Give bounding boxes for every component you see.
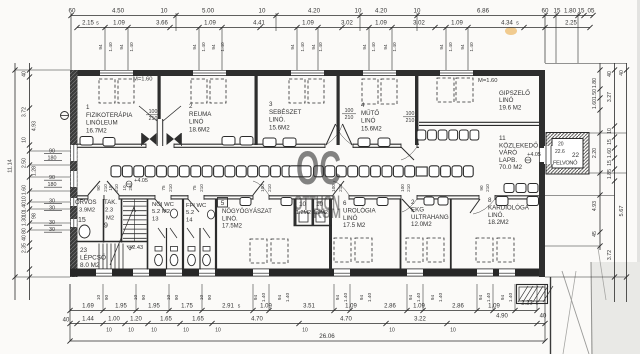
svg-text:1.40: 1.40 (220, 42, 226, 52)
paper edge fold region bottom right (591, 262, 640, 354)
svg-text:90: 90 (207, 295, 213, 301)
svg-text:05: 05 (588, 8, 595, 15)
wall ffi|nogyogy (215, 199, 217, 270)
furniture room4 dashed (362, 79, 378, 104)
svg-text:10: 10 (161, 8, 168, 15)
svg-text:94: 94 (192, 44, 198, 50)
svg-text:1.80: 1.80 (564, 8, 577, 15)
svg-text:1.40: 1.40 (22, 202, 28, 212)
fixtures rooms 10 (299, 212, 308, 222)
svg-text:M=1.60: M=1.60 (133, 77, 153, 83)
svg-text:15: 15 (554, 8, 561, 15)
svg-text:12.0M2: 12.0M2 (411, 221, 432, 228)
svg-text:1.09: 1.09 (345, 304, 357, 310)
svg-text:94: 94 (362, 44, 368, 50)
wall ekg|kardiologia (450, 199, 452, 270)
door nogyogyaszat into corridor (253, 181, 264, 195)
svg-text:3.9M2: 3.9M2 (79, 208, 95, 214)
svg-text:1.75: 1.75 (181, 304, 193, 310)
svg-text:10: 10 (96, 295, 102, 301)
svg-text:15.6M2: 15.6M2 (361, 125, 382, 132)
bottom wall (70, 269, 545, 277)
right connector lines (545, 63, 627, 65)
svg-text:1.40: 1.40 (108, 42, 114, 52)
svg-text:10: 10 (215, 328, 221, 334)
svg-text:94: 94 (335, 295, 341, 301)
svg-text:210: 210 (114, 184, 119, 192)
svg-text:94: 94 (277, 295, 283, 301)
door ekg (402, 199, 414, 212)
corner extension lines top (70, 13, 72, 70)
svg-text:210: 210 (149, 116, 158, 122)
dimension row top inner (77, 27, 590, 29)
wall stairs|noiwc (147, 199, 149, 270)
radiators kardiologia (496, 197, 508, 206)
svg-text:1.40: 1.40 (448, 42, 454, 52)
left main dimension chain (29, 63, 31, 300)
svg-text:5: 5 (238, 304, 241, 309)
svg-text:GIPSZELŐ: GIPSZELŐ (499, 90, 530, 97)
stair arrow (110, 207, 134, 265)
svg-text:2.91: 2.91 (222, 304, 234, 310)
svg-text:2.50: 2.50 (22, 158, 28, 168)
svg-text:100: 100 (400, 184, 405, 192)
svg-text:20: 20 (128, 185, 133, 191)
svg-text:210: 210 (345, 115, 354, 121)
svg-text:10: 10 (302, 328, 308, 334)
elevator lobby bench row (504, 184, 514, 193)
svg-text:LINÓ: LINÓ (499, 97, 514, 104)
svg-text:90: 90 (141, 295, 147, 301)
svg-text:210: 210 (406, 184, 411, 192)
svg-text:4.93: 4.93 (592, 201, 598, 211)
svg-text:3.66: 3.66 (156, 21, 168, 27)
corridor top wall rooms 1-4 (77, 143, 419, 145)
furniture kardiologia dashed (476, 238, 493, 262)
left window axis lines (30, 150, 71, 152)
svg-text:4.34: 4.34 (501, 21, 513, 27)
svg-text:1.65: 1.65 (160, 317, 172, 323)
svg-text:1.40: 1.40 (261, 293, 267, 303)
svg-text:2.15: 2.15 (82, 21, 94, 27)
svg-text:18: 18 (108, 185, 113, 191)
svg-text:NŐGYÓGYÁSZAT: NŐGYÓGYÁSZAT (222, 208, 272, 215)
svg-text:15: 15 (78, 217, 86, 224)
svg-text:2.3: 2.3 (105, 208, 113, 214)
svg-text:FFI WC: FFI WC (186, 203, 207, 209)
svg-text:210: 210 (406, 118, 415, 124)
furniture room5 dashed (437, 78, 454, 102)
svg-text:1.40: 1.40 (300, 42, 306, 52)
paper right edge shading (637, 0, 640, 354)
svg-text:4: 4 (361, 102, 365, 109)
svg-text:26.06: 26.06 (319, 333, 335, 340)
svg-text:1.60: 1.60 (607, 148, 613, 158)
svg-text:1.30: 1.30 (22, 216, 28, 226)
svg-text:22.6: 22.6 (555, 149, 565, 155)
bottom wall windows (96, 269, 112, 275)
svg-text:90: 90 (479, 185, 484, 191)
door assembly rooms 1|2 (156, 119, 164, 146)
wall rooms 2|3 (255, 75, 258, 145)
svg-text:210: 210 (485, 184, 490, 192)
bottom extension lines row1 (69, 284, 71, 311)
svg-text:100: 100 (260, 184, 265, 192)
svg-text:1.40: 1.40 (438, 293, 444, 303)
radiators room4 (358, 138, 370, 147)
washbasins wc (170, 209, 177, 218)
svg-text:8.0 M2: 8.0 M2 (80, 262, 100, 269)
svg-text:210: 210 (267, 184, 272, 192)
svg-text:4.70: 4.70 (340, 317, 352, 323)
svg-text:10: 10 (259, 8, 266, 15)
svg-text:75: 75 (161, 185, 166, 191)
furniture room1 dashed (99, 79, 115, 103)
svg-text:LINÓ.: LINÓ. (269, 117, 285, 124)
svg-text:1.09: 1.09 (488, 304, 500, 310)
svg-text:1.09: 1.09 (451, 21, 463, 27)
svg-text:14: 14 (186, 217, 193, 223)
svg-text:4.20: 4.20 (375, 8, 388, 15)
svg-text:1.09: 1.09 (204, 21, 216, 27)
svg-text:VÁRÓ: VÁRÓ (499, 148, 517, 157)
svg-text:1.40: 1.40 (371, 42, 377, 52)
svg-text:1.40: 1.40 (486, 293, 492, 303)
wall rooms 1|2 (158, 75, 161, 145)
svg-text:ULTRAHANG: ULTRAHANG (411, 214, 449, 221)
svg-text:1.20: 1.20 (130, 317, 142, 323)
svg-text:3.51: 3.51 (303, 304, 315, 310)
right dimension line C (626, 63, 628, 302)
wc stall partitions (166, 228, 168, 270)
svg-text:LINÓ: LINÓ (189, 119, 204, 126)
svg-text:1.50: 1.50 (592, 89, 598, 99)
svg-text:10: 10 (183, 328, 189, 334)
svg-text:15.6M2: 15.6M2 (269, 124, 290, 131)
svg-text:3.72: 3.72 (22, 107, 28, 117)
svg-text:1.40: 1.40 (343, 293, 349, 303)
svg-text:2.86: 2.86 (452, 304, 464, 310)
svg-text:3.27: 3.27 (607, 92, 613, 102)
svg-text:90: 90 (174, 295, 180, 301)
svg-text:1.85: 1.85 (607, 169, 613, 179)
svg-text:8: 8 (488, 197, 492, 204)
radiators nogyogyaszat (240, 198, 251, 206)
elevator shaft walls (546, 133, 589, 175)
washbasin orvos (79, 225, 90, 238)
svg-text:LINÓ.: LINÓ. (222, 215, 238, 222)
svg-text:210: 210 (199, 184, 204, 192)
svg-text:UROLÓGIA: UROLÓGIA (343, 207, 377, 214)
svg-text:40: 40 (22, 235, 28, 241)
svg-text:2.86: 2.86 (384, 304, 396, 310)
svg-text:40: 40 (540, 314, 547, 320)
svg-text:LAPB.: LAPB. (499, 157, 517, 164)
svg-text:1.60: 1.60 (592, 99, 598, 109)
svg-text:4.41: 4.41 (253, 21, 265, 27)
svg-text:RUM: RUM (313, 205, 341, 221)
svg-text:5: 5 (516, 21, 519, 26)
svg-text:94: 94 (253, 295, 259, 301)
svg-text:1: 1 (86, 104, 90, 111)
wall noi|ffi (182, 199, 184, 270)
svg-text:15: 15 (607, 139, 613, 145)
svg-text:94: 94 (439, 44, 445, 50)
svg-text:10: 10 (128, 328, 134, 334)
svg-text:TAK.: TAK. (104, 200, 117, 206)
svg-text:1.40: 1.40 (469, 42, 475, 52)
right wall (539, 70, 545, 277)
staircase room 23 treads (98, 244, 100, 270)
svg-text:1.80: 1.80 (592, 78, 598, 88)
bottom row 3 total (70, 340, 545, 342)
svg-text:1.69: 1.69 (82, 304, 94, 310)
svg-text:3.02: 3.02 (341, 21, 353, 27)
svg-text:1.09: 1.09 (375, 21, 387, 27)
svg-text:1.40: 1.40 (508, 293, 514, 303)
svg-text:4.90: 4.90 (496, 314, 508, 320)
svg-text:45: 45 (592, 231, 598, 237)
svg-text:ORVOS: ORVOS (75, 200, 97, 206)
svg-text:94: 94 (408, 295, 414, 301)
svg-text:19.6 M2: 19.6 M2 (499, 104, 522, 111)
svg-text:90: 90 (96, 185, 101, 191)
svg-text:10: 10 (122, 185, 127, 191)
radiators room1 (80, 137, 93, 146)
svg-text:94: 94 (290, 44, 296, 50)
svg-text:40: 40 (63, 318, 70, 324)
svg-text:94: 94 (383, 44, 389, 50)
svg-text:SEBÉSZET: SEBÉSZET (269, 109, 302, 116)
left wall windows (71, 145, 77, 161)
left wall (70, 70, 78, 277)
svg-text:3.22: 3.22 (414, 317, 426, 323)
orange smudge (505, 27, 517, 35)
gipszelo radiator row (417, 130, 426, 140)
right dimension line A (599, 63, 601, 250)
svg-text:18.2M2: 18.2M2 (488, 219, 509, 226)
radiators urologia (354, 198, 365, 206)
svg-text:20: 20 (558, 142, 564, 148)
svg-text:40: 40 (22, 71, 28, 77)
gas symbol (61, 112, 69, 120)
furniture urologia dashed (334, 238, 351, 262)
rooms 10 walls hatched (294, 199, 297, 226)
svg-text:6: 6 (343, 200, 347, 207)
rooms 10 bottom wall (294, 225, 333, 227)
fold crease lines (562, 271, 589, 354)
svg-text:1.95: 1.95 (115, 304, 127, 310)
elevator door (544, 146, 553, 164)
svg-text:40: 40 (607, 71, 613, 77)
wall orvos|tak (103, 199, 105, 243)
svg-text:10: 10 (151, 328, 157, 334)
svg-text:10: 10 (389, 328, 395, 334)
staircase upper flight treads (123, 201, 147, 203)
door urologia into corridor (333, 181, 344, 195)
toilets (155, 247, 162, 252)
svg-text:LÉPCSŐ: LÉPCSŐ (80, 252, 106, 261)
right dimension line B (614, 63, 616, 302)
door gipszelo to corridor (401, 147, 414, 160)
svg-text:2: 2 (189, 103, 193, 110)
svg-text:70.0 M2: 70.0 M2 (499, 164, 523, 171)
left overall dimension line (14, 63, 16, 300)
corridor bottom wall (77, 195, 539, 197)
svg-text:94: 94 (119, 44, 125, 50)
svg-text:11: 11 (499, 135, 506, 142)
furniture ekg dashed (406, 238, 423, 262)
wall under orvos/tak (77, 241, 148, 243)
svg-text:1.40: 1.40 (318, 42, 324, 52)
svg-text:5.67: 5.67 (619, 206, 625, 217)
svg-text:5.00: 5.00 (202, 8, 215, 15)
svg-text:LINÓ.: LINÓ. (488, 212, 504, 219)
svg-text:13: 13 (152, 216, 159, 222)
door kardiologia (470, 199, 480, 213)
svg-text:22: 22 (572, 152, 580, 159)
dark vertical line right of plan bottom (550, 277, 552, 354)
stall doors (158, 228, 165, 238)
bottom row 1 (70, 310, 537, 312)
svg-text:18.6M2: 18.6M2 (189, 126, 210, 133)
svg-text:80: 80 (22, 228, 28, 234)
nogyogyaszat label (218, 198, 228, 208)
door ffi wc (188, 199, 199, 212)
svg-text:5: 5 (96, 21, 99, 26)
svg-text:94: 94 (430, 295, 436, 301)
svg-text:FIZIKOTERÁPIA: FIZIKOTERÁPIA (86, 112, 133, 119)
svg-text:LINÓ: LINÓ (361, 118, 376, 125)
svg-text:1.44: 1.44 (82, 317, 94, 323)
door noi wc (155, 199, 166, 212)
svg-text:LINÓLEUM: LINÓLEUM (86, 120, 118, 127)
svg-text:10: 10 (106, 328, 112, 334)
svg-text:2.25: 2.25 (565, 21, 577, 27)
furniture room3 dashed (289, 79, 305, 103)
svg-text:16.7M2: 16.7M2 (86, 127, 107, 134)
svg-text:1.09: 1.09 (302, 21, 314, 27)
svg-text:94: 94 (500, 295, 506, 301)
svg-text:M=1.60: M=1.60 (478, 78, 498, 84)
svg-text:94: 94 (98, 44, 104, 50)
svg-text:10: 10 (22, 137, 28, 143)
svg-text:75: 75 (192, 185, 197, 191)
svg-text:1.95: 1.95 (148, 304, 160, 310)
svg-text:1.09: 1.09 (113, 21, 125, 27)
svg-text:4.70: 4.70 (251, 317, 263, 323)
svg-text:15: 15 (607, 160, 613, 166)
svg-text:1.40: 1.40 (201, 42, 207, 52)
radiators room3 (263, 138, 276, 147)
svg-text:4.50: 4.50 (112, 8, 125, 15)
svg-text:100: 100 (149, 109, 158, 115)
radiators ekg (424, 197, 434, 205)
svg-text:94: 94 (359, 295, 365, 301)
svg-text:KÖZLEKEDŐ: KÖZLEKEDŐ (499, 140, 538, 149)
svg-text:98: 98 (32, 213, 38, 219)
svg-text:17.5M2: 17.5M2 (222, 224, 243, 230)
corridor bench row (111, 166, 121, 177)
svg-text:1.65: 1.65 (192, 317, 204, 323)
svg-text:100: 100 (345, 108, 354, 114)
radiators room2 (222, 137, 235, 146)
svg-text:100: 100 (406, 111, 415, 117)
svg-text:210: 210 (168, 184, 173, 192)
bottom row 2 (70, 323, 545, 325)
svg-text:M2: M2 (106, 216, 114, 222)
svg-text:1.40: 1.40 (392, 42, 398, 52)
svg-text:94: 94 (460, 44, 466, 50)
wall urologia|ekg (400, 199, 402, 270)
wall rooms 3|4 (337, 75, 340, 145)
svg-text:15: 15 (578, 8, 585, 15)
svg-text:1.40: 1.40 (416, 293, 422, 303)
svg-text:2.35: 2.35 (22, 243, 28, 253)
svg-text:5: 5 (221, 200, 225, 207)
svg-text:1.40: 1.40 (285, 293, 291, 303)
svg-text:1.40: 1.40 (367, 293, 373, 303)
svg-text:3: 3 (269, 101, 273, 108)
svg-text:OC: OC (296, 141, 341, 194)
svg-text:94: 94 (211, 44, 217, 50)
svg-text:9: 9 (104, 223, 108, 230)
svg-text:REUMA: REUMA (189, 111, 212, 118)
svg-text:4.93: 4.93 (32, 121, 38, 131)
svg-text:10: 10 (355, 8, 362, 15)
wall rooms 4|5 (415, 75, 418, 145)
svg-text:1.09: 1.09 (260, 304, 272, 310)
svg-text:17.5 M2: 17.5 M2 (343, 222, 366, 229)
external stair hatched box (517, 285, 548, 304)
svg-text:4.20: 4.20 (308, 8, 321, 15)
svg-text:5.2: 5.2 (186, 210, 194, 216)
svg-text:1.28: 1.28 (32, 166, 38, 176)
svg-text:2.20: 2.20 (592, 148, 598, 158)
furniture nogyogyaszat dashed (250, 239, 267, 263)
svg-text:1.40: 1.40 (129, 42, 135, 52)
door V rooms 3|4 (326, 124, 336, 145)
wall tak|stairs (121, 199, 123, 243)
svg-text:94: 94 (478, 295, 484, 301)
svg-text:KARDIOLÓGA: KARDIOLÓGA (488, 204, 530, 211)
gipszelo corridor wall (419, 121, 539, 123)
svg-text:FELVONÓ: FELVONÓ (553, 160, 578, 167)
svg-text:90: 90 (104, 295, 110, 301)
svg-text:6.86: 6.86 (477, 8, 490, 15)
svg-text:60: 60 (69, 8, 76, 15)
svg-text:1.60: 1.60 (22, 185, 28, 195)
svg-text:10: 10 (22, 196, 28, 202)
svg-text:2: 2 (411, 199, 415, 206)
window axis extension lines top (104, 28, 106, 71)
svg-text:LINÓ: LINÓ (343, 215, 358, 222)
svg-text:+4.05: +4.05 (134, 178, 148, 184)
dimension row top outer (71, 15, 593, 17)
svg-text:1.00: 1.00 (108, 317, 120, 323)
svg-text:40: 40 (619, 70, 625, 76)
furniture room2 dashed (191, 79, 207, 103)
svg-text:EKG: EKG (411, 206, 424, 213)
door orvos/tak V into corridor (88, 181, 100, 195)
svg-text:MŰTŐ: MŰTŐ (361, 110, 379, 117)
svg-text:23: 23 (80, 247, 88, 254)
svg-text:5.2 M2: 5.2 M2 (152, 209, 170, 215)
svg-text:1.09: 1.09 (413, 304, 425, 310)
svg-text:11.14: 11.14 (8, 159, 14, 173)
svg-text:NŐI WC: NŐI WC (152, 201, 175, 208)
top wall (70, 70, 545, 72)
